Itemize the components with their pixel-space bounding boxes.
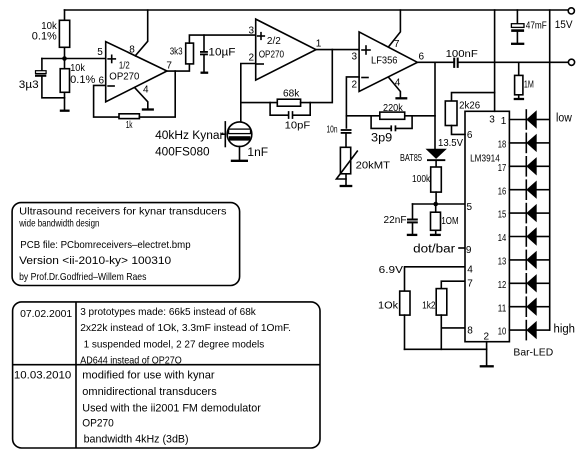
pin 8 wire to rail: [135, 10, 147, 56]
svg-text:3: 3: [249, 25, 255, 36]
ground under 1M: [514, 98, 524, 100]
svg-text:22nF: 22nF: [384, 214, 407, 226]
svg-text:9: 9: [466, 245, 472, 256]
wire feedback to output: [139, 71, 175, 117]
svg-text:400FS080: 400FS080: [155, 147, 210, 159]
transducer X1 kynar: [222, 122, 252, 160]
wire pin7 to 1k2: [441, 281, 465, 288]
svg-text:7: 7: [467, 278, 473, 289]
table divider horizontal: [13, 364, 320, 366]
resistor R12 1M: [515, 62, 534, 97]
resistor R9 10k: [378, 291, 410, 349]
wire op2 output to LF356: [316, 49, 359, 51]
svg-text:07.02.2001: 07.02.2001: [20, 308, 72, 320]
svg-text:5: 5: [467, 202, 473, 213]
svg-text:10pF: 10pF: [285, 120, 311, 132]
table divider vertical: [75, 302, 77, 448]
wire branch down to detector: [434, 62, 436, 149]
svg-text:1k: 1k: [126, 119, 133, 131]
ground under transducer: [231, 160, 248, 162]
svg-text:2: 2: [249, 53, 255, 64]
svg-text:3k3: 3k3: [170, 45, 183, 57]
svg-text:17: 17: [498, 163, 507, 174]
svg-text:Version <ii-2010-ky> 100310: Version <ii-2010-ky> 100310: [19, 255, 171, 267]
resistor R11 2k26: [445, 93, 494, 135]
svg-text:Ultrasound receivers for kynar: Ultrasound receivers for kynar transduce…: [19, 206, 226, 218]
capacitor C7 22nF: [384, 204, 418, 234]
ground LM3914 pin2: [480, 365, 494, 367]
svg-text:7: 7: [394, 39, 400, 50]
capacitor C6 100nF: [446, 48, 478, 68]
svg-text:3µ3: 3µ3: [19, 79, 39, 91]
svg-text:5: 5: [97, 47, 103, 58]
svg-text:2k26: 2k26: [459, 99, 480, 111]
svg-text:15: 15: [498, 210, 507, 221]
svg-text:omnidirectional transducers: omnidirectional transducers: [82, 386, 217, 398]
svg-text:10µF: 10µF: [208, 46, 235, 58]
note box: [12, 203, 240, 286]
wire pin5 row: [413, 203, 466, 205]
svg-text:OP270: OP270: [109, 70, 139, 82]
svg-text:Used with the ii2001 FM demodu: Used with the ii2001 FM demodulator: [82, 402, 261, 414]
svg-text:10k: 10k: [70, 62, 85, 74]
pin 4 wire to ground: [135, 88, 148, 109]
resistor R7 100k: [412, 167, 441, 204]
svg-text:dot/bar: dot/bar: [413, 243, 455, 255]
svg-text:OP270: OP270: [82, 418, 114, 430]
pin 7 wire to rail: [389, 10, 401, 47]
capacitor C5 10n: [327, 123, 352, 147]
IC U4 LM3914: [465, 111, 509, 341]
wire pin 6 input: [94, 85, 119, 117]
capacitor C1 3u3: [19, 59, 65, 98]
wire op1 output: [165, 64, 189, 71]
svg-text:220k: 220k: [383, 102, 403, 114]
svg-text:12: 12: [498, 280, 507, 291]
svg-text:15V: 15V: [555, 19, 573, 31]
LED D11 row10: [509, 321, 549, 340]
terminal 15V: [568, 8, 574, 14]
svg-text:6.9V: 6.9V: [379, 264, 403, 276]
svg-text:1nF: 1nF: [247, 147, 268, 159]
pin 4 wire to ground: [389, 77, 401, 97]
wire pin4 6.9V row: [405, 267, 466, 291]
capacitor C8 47mF: [511, 10, 547, 42]
thermistor RT1 20kMT: [336, 147, 390, 185]
wire top +15V rail: [65, 9, 568, 11]
ground under 20kMT: [340, 185, 353, 187]
wire feedback op2: [241, 102, 277, 104]
capacitor C4 3p9 parallel loop: [371, 116, 412, 145]
LED D4 row3: [509, 157, 549, 176]
wire op2 inverting input: [241, 64, 256, 122]
wire LF356 inverting input: [346, 77, 359, 128]
svg-text:OP270: OP270: [259, 48, 285, 60]
capacitor C2 10uF: [200, 35, 236, 72]
resistor R1 10k 0.1%: [32, 20, 70, 47]
LED D7 row6: [509, 227, 549, 246]
svg-text:BAT85: BAT85: [400, 152, 422, 164]
svg-text:3: 3: [489, 115, 495, 126]
wire noninverting input op1: [42, 58, 106, 60]
resistor R8 10M: [431, 204, 459, 234]
wire pin2 ground stem: [486, 342, 488, 365]
svg-text:3: 3: [352, 52, 358, 63]
svg-text:LM3914: LM3914: [470, 152, 500, 164]
svg-text:1 suspended model, 2 27 degre: 1 suspended model, 2 27 degree models: [84, 338, 265, 350]
svg-text:10n: 10n: [327, 123, 338, 135]
revision table: [13, 302, 320, 448]
wire 3k3 top to op2 input: [189, 35, 255, 43]
ground under 47mF: [511, 43, 524, 45]
svg-text:wide bandwidth design: wide bandwidth design: [18, 218, 99, 230]
ground under 22nF: [407, 234, 418, 236]
svg-text:100k: 100k: [412, 173, 431, 185]
terminal output: [568, 59, 574, 65]
LED D6 row5: [509, 204, 549, 223]
svg-text:13.5V: 13.5V: [438, 137, 463, 149]
svg-text:68k: 68k: [283, 87, 300, 99]
svg-text:modified for use with kynar: modified for use with kynar: [82, 370, 215, 382]
diode D1 BAT85: [400, 149, 447, 167]
svg-text:Bar-LED: Bar-LED: [513, 346, 553, 358]
svg-text:PCB file: PCbomreceivers–elect: PCB file: PCbomreceivers–electret.bmp: [20, 239, 190, 251]
svg-text:0.1%: 0.1%: [70, 74, 95, 86]
LED D9 row8: [509, 274, 549, 293]
svg-text:40kHz Kynar: 40kHz Kynar: [155, 130, 224, 142]
svg-text:1Ok: 1Ok: [378, 300, 399, 312]
svg-text:3 prototypes made: 66k5 instea: 3 prototypes made: 66k5 instead of 68k: [80, 306, 256, 318]
resistor R3 1k: [119, 114, 139, 131]
wire R1 top stub: [64, 10, 66, 20]
op-amp U1 1/2 OP270: [106, 42, 167, 102]
resistor R6 220k: [380, 102, 405, 119]
resistor R4 3k3: [170, 43, 194, 64]
svg-text:20kMT: 20kMT: [356, 160, 391, 172]
svg-text:4: 4: [395, 78, 401, 89]
op-amp U2 2/2 OP270: [256, 19, 316, 80]
resistor R5 68k: [277, 87, 300, 106]
svg-text:1: 1: [501, 116, 507, 127]
svg-text:3p9: 3p9: [371, 133, 392, 145]
svg-text:8: 8: [467, 325, 473, 336]
LED D3 row2: [509, 133, 549, 152]
wire feedback 220k row: [346, 115, 435, 117]
svg-text:by Prof.Dr.Godfried–Willem Rae: by Prof.Dr.Godfried–Willem Raes: [19, 271, 146, 283]
node A junction: [62, 56, 67, 61]
svg-text:13: 13: [498, 257, 507, 268]
LED D5 row4: [509, 180, 549, 199]
svg-text:high: high: [554, 324, 576, 336]
ground under 10M: [430, 234, 441, 236]
resistor R2 10k 0.1%: [60, 59, 95, 110]
wire LED supply rail: [549, 10, 551, 330]
svg-text:2/2: 2/2: [267, 35, 281, 47]
LED D10 row9: [509, 297, 549, 316]
svg-text:1OM: 1OM: [441, 215, 458, 227]
wire bottom row: [405, 348, 487, 350]
wire R1 bottom stub: [64, 47, 66, 58]
ground under R2: [60, 110, 70, 112]
resistor R10 1k2: [422, 289, 447, 350]
wire output to terminal: [459, 61, 568, 63]
wire 68k to op2 output: [301, 50, 333, 103]
svg-text:bandwidth 4kHz (3dB): bandwidth 4kHz (3dB): [84, 433, 189, 445]
ground under C2: [201, 72, 209, 74]
svg-text:8: 8: [129, 45, 135, 56]
capacitor C3 10pF parallel loop: [270, 103, 310, 132]
wire pin8 row: [441, 327, 465, 329]
node B junction: [433, 202, 438, 207]
svg-text:4: 4: [467, 265, 473, 276]
svg-text:10: 10: [498, 327, 507, 338]
svg-text:47mF: 47mF: [526, 21, 547, 32]
svg-text:AD644 instead of OP27O: AD644 instead of OP27O: [80, 354, 182, 366]
svg-text:4: 4: [143, 85, 149, 96]
LED D2 row1: [509, 110, 549, 129]
svg-text:18: 18: [498, 140, 507, 151]
wire pin9 stub: [459, 247, 465, 249]
svg-text:2: 2: [352, 80, 358, 91]
svg-text:0.1%: 0.1%: [32, 30, 57, 42]
svg-text:14: 14: [498, 233, 507, 244]
op-amp U3 LF356: [359, 32, 417, 92]
svg-text:10.03.2010: 10.03.2010: [14, 369, 71, 381]
svg-text:1k2: 1k2: [422, 300, 436, 312]
svg-text:11: 11: [498, 303, 507, 314]
svg-text:7: 7: [166, 61, 172, 72]
svg-text:1: 1: [316, 38, 322, 49]
svg-text:6: 6: [467, 130, 473, 141]
svg-text:LF356: LF356: [371, 55, 398, 67]
svg-text:6: 6: [419, 52, 425, 63]
ground op1 pin4: [142, 108, 154, 110]
svg-text:2x22k instead of 1Ok, 3.3mF in: 2x22k instead of 1Ok, 3.3mF instead of 1…: [80, 322, 291, 334]
wire LF356 output: [417, 61, 453, 63]
LED D8 row7: [509, 250, 549, 269]
svg-text:low: low: [556, 113, 572, 125]
svg-text:16: 16: [498, 186, 507, 197]
svg-text:1M: 1M: [524, 78, 534, 90]
wire pin3 vertical from rail: [494, 10, 496, 111]
svg-text:100nF: 100nF: [446, 48, 478, 60]
ground LF356 pin4: [395, 97, 407, 99]
